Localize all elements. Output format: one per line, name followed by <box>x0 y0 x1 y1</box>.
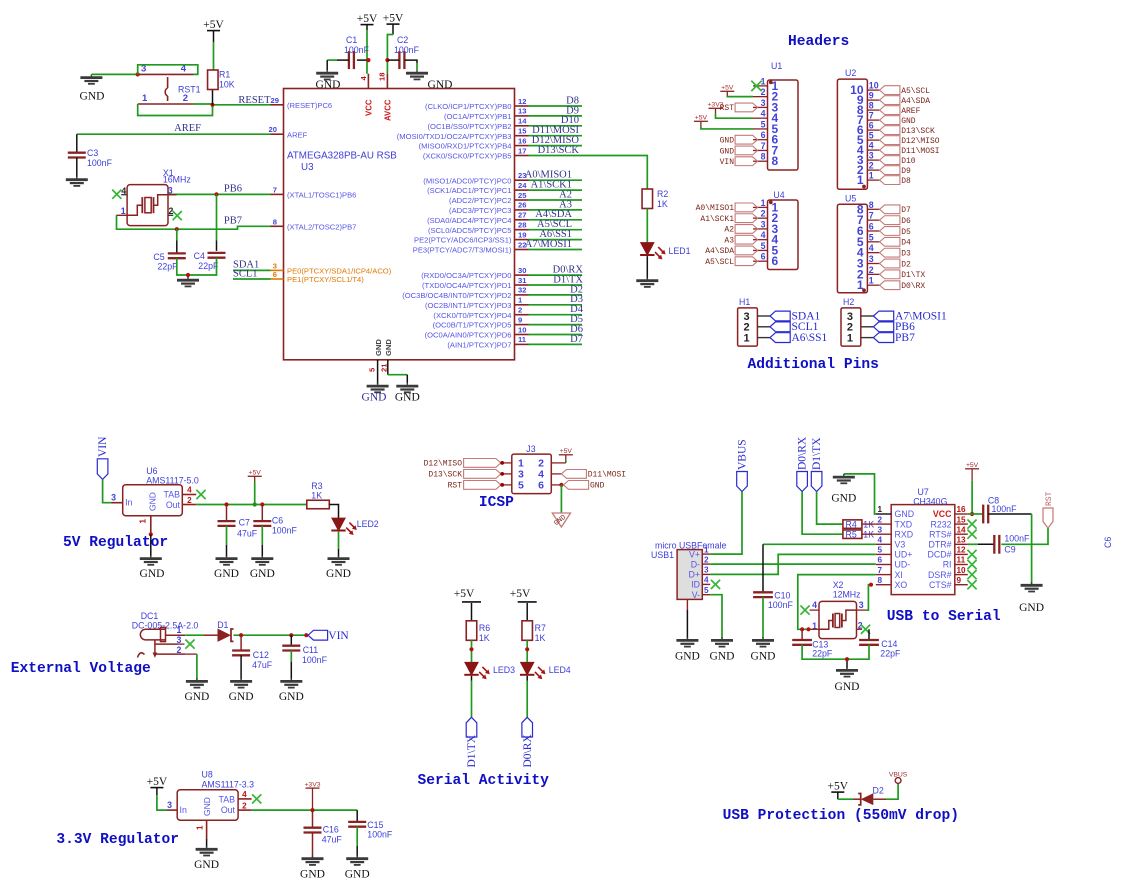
U3 pin 4 VCC <box>359 74 374 116</box>
wire +5V to R1 <box>213 42 214 105</box>
U6 pin 2 Out <box>182 496 196 505</box>
svg-text:LED3: LED3 <box>493 665 515 675</box>
svg-text:D7: D7 <box>570 334 583 345</box>
svg-text:(SDA0/ADC4/PTCY)PC4: (SDA0/ADC4/PTCY)PC4 <box>427 216 511 225</box>
label D6 <box>570 324 583 335</box>
svg-text:USB Protection (550mV drop): USB Protection (550mV drop) <box>723 808 959 824</box>
svg-text:D2: D2 <box>873 786 884 796</box>
svg-text:(OC0B/T1/PTCXY)PD5: (OC0B/T1/PTCXY)PD5 <box>433 321 512 330</box>
svg-text:100nF: 100nF <box>768 600 794 610</box>
wire D1 to VIN <box>234 634 309 636</box>
wire D1\TX to R4 <box>817 492 843 525</box>
U3 pin 31 (TXD0/OC4A/PTCXY)PD1 <box>422 276 528 290</box>
resistor R6 <box>466 621 490 643</box>
svg-text:5V Regulator: 5V Regulator <box>63 535 168 551</box>
wire U7 GND to ground <box>844 474 876 514</box>
svg-text:7: 7 <box>273 185 277 194</box>
junction PB7/C5 <box>175 227 179 231</box>
ground C7 <box>214 555 239 580</box>
capacitor C1 <box>344 35 370 69</box>
svg-text:UD+: UD+ <box>895 550 913 560</box>
power +5V (U8) <box>147 776 168 795</box>
svg-text:VIN: VIN <box>720 158 735 167</box>
U3 pin 20 AREF <box>269 125 308 139</box>
capacitor C4 <box>194 251 226 271</box>
connector U4 body <box>768 190 799 270</box>
svg-text:USB1: USB1 <box>651 550 674 560</box>
svg-text:6: 6 <box>538 480 544 492</box>
svg-text:D11\MOSI: D11\MOSI <box>901 147 939 156</box>
LED LED3 <box>464 662 515 679</box>
junction U7 VCC <box>970 512 974 516</box>
svg-text:30: 30 <box>518 266 526 275</box>
svg-text:GND: GND <box>720 147 735 156</box>
hier label D12\MISO (J3 pin 1) <box>424 459 505 469</box>
title 5V Regulator <box>63 535 168 551</box>
svg-text:D12\MISO: D12\MISO <box>901 137 940 146</box>
resistor R2 <box>642 189 668 209</box>
svg-text:D7: D7 <box>901 206 911 215</box>
power +5V (AVCC) <box>383 13 404 35</box>
svg-text:29: 29 <box>271 96 279 105</box>
svg-text:(OC2B/INT1/PTCXY)PD3: (OC2B/INT1/PTCXY)PD3 <box>425 301 512 310</box>
svg-text:R232: R232 <box>930 519 951 529</box>
wire D5 <box>529 324 583 326</box>
hier label A1\SCK1 (U4 pin 2) <box>700 214 757 224</box>
svg-text:7: 7 <box>878 566 883 575</box>
ground U3 pin21 <box>395 383 420 404</box>
U7 left pins <box>876 505 914 590</box>
svg-text:GND: GND <box>229 691 254 703</box>
svg-text:GND: GND <box>751 651 776 663</box>
svg-text:C16: C16 <box>323 825 339 835</box>
svg-text:RST: RST <box>448 482 463 491</box>
svg-text:(XTAL1/TOSC1)PB6: (XTAL1/TOSC1)PB6 <box>287 191 356 200</box>
svg-text:100nF: 100nF <box>367 830 393 840</box>
regulator U6 body <box>123 466 199 516</box>
U3 pin 15 (MOSI0/TXD1/OC2A/PTCXY)PB3 <box>397 127 529 141</box>
label D4 <box>570 304 584 315</box>
power +5V (VCC) <box>357 13 378 30</box>
R5 to U7 RXD stub <box>862 533 876 535</box>
wire VBUS to USB1 V+ <box>710 492 742 555</box>
wire C15 to GND <box>356 827 358 857</box>
svg-text:PB6: PB6 <box>224 183 242 194</box>
wire +5V to D2 <box>838 798 861 800</box>
U3 pin 29 (RESET)PC6 <box>271 96 333 110</box>
U2 pin numbers <box>850 81 879 188</box>
svg-text:U7: U7 <box>918 487 929 497</box>
ground C3 <box>66 177 88 186</box>
U3 pin 10 (OC0A/AIN0/PTCXY)PD6 <box>425 325 529 339</box>
svg-text:D6: D6 <box>901 217 911 226</box>
svg-text:100nF: 100nF <box>272 526 298 536</box>
svg-text:D3: D3 <box>901 249 911 258</box>
svg-text:D0\RX: D0\RX <box>522 734 534 768</box>
svg-text:15: 15 <box>957 515 967 524</box>
svg-text:C15: C15 <box>367 820 383 830</box>
junction VIN <box>304 633 308 637</box>
power +5V (R6) <box>454 588 481 602</box>
svg-text:(SCK1/ADC1/PTCY)PC1: (SCK1/ADC1/PTCY)PC1 <box>427 186 511 195</box>
svg-text:8: 8 <box>878 576 883 585</box>
global label VBUS (vertical) <box>737 439 749 491</box>
ground U3 pin5 <box>362 383 389 404</box>
svg-text:+3V3: +3V3 <box>304 781 320 788</box>
svg-text:6: 6 <box>878 556 883 565</box>
junction C11 <box>289 633 293 637</box>
svg-text:GND: GND <box>395 392 420 404</box>
U4 pin numbers <box>753 198 779 268</box>
svg-text:22pF: 22pF <box>158 262 179 272</box>
svg-text:AMS1117-5.0: AMS1117-5.0 <box>146 475 199 485</box>
label A2 <box>559 189 572 200</box>
svg-text:+5V: +5V <box>721 85 734 92</box>
svg-text:100nF: 100nF <box>344 45 370 55</box>
svg-text:47uF: 47uF <box>322 835 343 845</box>
svg-text:GND: GND <box>895 509 915 519</box>
svg-text:C7: C7 <box>239 518 250 528</box>
ground C4 C5 <box>177 277 199 286</box>
hier label D9 (U2 pin 2) <box>880 166 911 176</box>
wire A6\SS1 <box>529 239 583 241</box>
svg-text:R2: R2 <box>657 189 668 199</box>
ground DC1 <box>184 678 209 703</box>
wire RESET <box>213 104 271 106</box>
global label D0\RX (vertical) <box>522 717 534 767</box>
wire VIN to U6 In <box>103 479 112 502</box>
U3 pin 28 (SCL0/ADC5/PTCY)PC5 <box>428 221 529 235</box>
hier label D11\MOSI (U2 pin 4) <box>880 146 940 156</box>
label A1\SCK1 <box>531 180 572 191</box>
svg-text:+5V: +5V <box>828 781 849 793</box>
regulator U8 body <box>177 770 254 821</box>
hier label D8 (U2 pin 1) <box>880 176 911 186</box>
junction C7 <box>224 502 228 506</box>
hier label D2 (U5 pin 3) <box>880 259 911 269</box>
svg-text:4: 4 <box>869 141 874 151</box>
ground J3 (triangle) <box>552 513 570 528</box>
U3 pin 7 PB6 <box>271 185 357 199</box>
svg-text:4: 4 <box>812 600 817 610</box>
wire C2 to GND <box>387 60 417 70</box>
hier label A2 (U4 pin 3) <box>724 225 757 235</box>
svg-text:8: 8 <box>761 152 766 162</box>
U3 pin 11 (AIN1/PTCXY)PD7 <box>447 335 528 349</box>
capacitor C8 <box>983 496 1017 524</box>
junction X2 GND <box>845 657 849 661</box>
connector U5 body <box>837 194 867 293</box>
svg-text:UD-: UD- <box>895 560 911 570</box>
power +5V (D2) <box>828 781 849 800</box>
wire D+ to UD+ <box>710 554 876 574</box>
U7 right pins <box>928 505 968 590</box>
hier label D4 (U5 pin 5) <box>880 237 911 247</box>
global label SCL1 (H1 pin 2) <box>770 321 819 333</box>
hier label RST (J3 pin 5) <box>448 481 505 491</box>
svg-text:100nF: 100nF <box>1004 534 1030 544</box>
svg-text:DCD#: DCD# <box>928 550 952 560</box>
svg-text:RTS#: RTS# <box>929 529 951 539</box>
wire XI to X2 pin1 <box>798 575 876 630</box>
hier label D7 (U5 pin 8) <box>880 205 911 215</box>
svg-text:GND: GND <box>300 869 325 881</box>
U3 pin 21 GND <box>380 339 393 375</box>
wire D7 <box>529 343 583 345</box>
connector USB1 body <box>651 540 726 599</box>
svg-text:2: 2 <box>187 496 192 505</box>
svg-text:13: 13 <box>957 536 967 545</box>
wire C3 to GND <box>76 158 78 178</box>
capacitor C3 <box>68 134 113 168</box>
svg-text:D10: D10 <box>901 157 916 166</box>
svg-text:D13\SCK: D13\SCK <box>538 145 580 156</box>
svg-text:D4: D4 <box>901 239 911 248</box>
wire DTR# to C9 <box>968 543 995 545</box>
wire U1 pin4 <box>716 114 754 119</box>
svg-text:2: 2 <box>177 645 182 655</box>
mcu U3 body <box>284 89 515 360</box>
svg-text:C11: C11 <box>303 645 319 655</box>
hier label D10 (U2 pin 3) <box>880 156 916 166</box>
svg-text:1K: 1K <box>479 633 490 643</box>
svg-text:A7\MOSI1: A7\MOSI1 <box>525 239 572 250</box>
svg-text:+5V: +5V <box>560 448 573 455</box>
U3 pin 2 (XCK0/T0/PTCXY)PD4 <box>433 306 528 320</box>
svg-text:C9: C9 <box>1004 545 1015 555</box>
X1 pin2 no-connect <box>168 211 182 220</box>
U8 pin 3 <box>167 800 177 810</box>
U3 pin 26 (ADC3/PTCY)PC3 <box>449 201 528 215</box>
svg-text:20: 20 <box>269 125 277 134</box>
wire +5V to U8 In <box>157 795 167 810</box>
svg-text:6: 6 <box>761 130 766 140</box>
capacitor C5 <box>153 229 185 271</box>
X2 pin numbers <box>812 600 864 631</box>
wire A1\SCK1 <box>529 189 583 191</box>
svg-text:(OC1B/SS0/PTCXY)PB2: (OC1B/SS0/PTCXY)PB2 <box>428 122 512 131</box>
svg-text:VCC: VCC <box>365 99 374 116</box>
svg-text:GND: GND <box>384 339 393 356</box>
wire V3 to C10 <box>763 544 876 592</box>
wire C8 to GND rail <box>988 514 1031 583</box>
svg-text:22pF: 22pF <box>812 649 833 659</box>
junction AVCC/C2 <box>385 58 389 62</box>
svg-text:C6: C6 <box>272 516 283 526</box>
ground C15 <box>345 856 370 881</box>
svg-text:3: 3 <box>704 566 709 575</box>
wire A5\SCL <box>529 229 583 231</box>
svg-text:1: 1 <box>518 296 523 305</box>
svg-text:D5: D5 <box>901 228 911 237</box>
wire DC1 pin2 to GND <box>196 654 198 679</box>
svg-text:18: 18 <box>378 73 387 81</box>
svg-text:+5V: +5V <box>510 588 531 600</box>
wire switch pins 3-4 loop <box>138 65 198 75</box>
svg-text:H2: H2 <box>843 297 854 307</box>
global label A7\MOSI1 (H2 pin 3) <box>873 310 947 322</box>
svg-text:GND: GND <box>428 79 453 91</box>
svg-text:2: 2 <box>242 802 247 811</box>
U7 no-connect pins right <box>967 520 976 590</box>
diode D2 <box>858 786 884 806</box>
J3 pin numbers <box>502 458 544 492</box>
svg-text:GND: GND <box>80 91 105 103</box>
title ICSP <box>479 495 514 511</box>
hier label D0\RX (U5 pin 1) <box>880 281 926 291</box>
svg-text:24: 24 <box>518 181 527 190</box>
svg-text:3: 3 <box>167 800 172 810</box>
power +5V (U7 VCC) <box>965 462 979 514</box>
svg-text:ATMEGA328PB-AU RSB: ATMEGA328PB-AU RSB <box>287 151 397 162</box>
svg-text:LED4: LED4 <box>549 665 571 675</box>
junction PB6/C4 <box>214 192 218 196</box>
wire C1 to GND <box>327 60 349 70</box>
svg-text:21: 21 <box>380 363 389 372</box>
svg-text:7: 7 <box>869 211 874 221</box>
wire LED4 to label <box>526 676 528 717</box>
svg-text:2: 2 <box>761 209 766 219</box>
svg-text:GND: GND <box>374 339 383 356</box>
svg-text:(ADC2/PTCY)PC2: (ADC2/PTCY)PC2 <box>449 196 511 205</box>
power +5V (U1 pin5) <box>694 115 708 127</box>
U5 pin numbers <box>857 200 880 292</box>
svg-text:8: 8 <box>273 217 277 226</box>
svg-text:D1: D1 <box>217 620 228 630</box>
svg-text:5: 5 <box>518 480 524 492</box>
svg-text:V-: V- <box>692 590 700 600</box>
svg-text:12MHz: 12MHz <box>833 590 861 600</box>
svg-text:6: 6 <box>869 121 874 131</box>
svg-text:VCC: VCC <box>933 509 952 519</box>
svg-text:+5V: +5V <box>357 13 378 25</box>
svg-text:XO: XO <box>895 580 908 590</box>
svg-text:D8: D8 <box>901 177 911 186</box>
svg-text:TAB: TAB <box>219 795 236 805</box>
junction C16 <box>310 808 314 812</box>
wire pin5 to ground <box>377 375 379 384</box>
U6 pin 3 <box>111 493 123 503</box>
svg-text:25: 25 <box>518 191 527 200</box>
svg-text:VIN: VIN <box>97 436 109 457</box>
svg-text:AMS1117-3.3: AMS1117-3.3 <box>202 779 255 789</box>
svg-text:16: 16 <box>957 505 967 514</box>
wire C16 to GND <box>312 833 314 857</box>
svg-text:C12: C12 <box>253 650 269 660</box>
svg-text:D9: D9 <box>901 167 911 176</box>
svg-text:4: 4 <box>878 536 883 545</box>
H2 pin numbers <box>847 311 874 345</box>
svg-text:+5V: +5V <box>383 13 404 25</box>
wire D6 <box>529 334 583 336</box>
label A3 <box>559 199 572 210</box>
svg-text:VBUS: VBUS <box>889 772 908 779</box>
U3 pin 8 PB7 <box>271 217 357 231</box>
X1 pin4 no-connect <box>112 190 127 199</box>
svg-text:15: 15 <box>518 127 527 136</box>
svg-text:In: In <box>125 498 132 508</box>
U3 pin 22 PE3(PTCY/ADC7/T3/MOSI1) <box>413 240 529 254</box>
svg-text:R1: R1 <box>219 70 230 80</box>
svg-text:GND: GND <box>316 79 341 91</box>
hier label GND (J3 pin6) <box>564 481 605 491</box>
label RESET <box>238 95 271 106</box>
svg-text:RXD: RXD <box>895 529 914 539</box>
svg-text:3: 3 <box>869 254 874 264</box>
svg-text:4: 4 <box>242 790 247 799</box>
X1 pin numbers <box>121 185 174 216</box>
capacitor C15 <box>348 810 393 839</box>
svg-text:2: 2 <box>761 87 766 97</box>
svg-text:GND: GND <box>362 392 387 404</box>
svg-text:C1: C1 <box>346 35 357 45</box>
svg-text:3: 3 <box>111 493 116 503</box>
label D2 <box>570 284 583 295</box>
capacitor C14 <box>859 629 901 658</box>
junction LED4 <box>525 647 529 651</box>
svg-text:TAB: TAB <box>164 490 181 500</box>
svg-text:10: 10 <box>518 325 526 334</box>
svg-text:Headers: Headers <box>788 34 849 50</box>
svg-text:31: 31 <box>518 276 527 285</box>
svg-text:A2: A2 <box>724 226 734 235</box>
U3 pin 25 (ADC2/PTCY)PC2 <box>449 191 528 205</box>
svg-text:R4: R4 <box>846 520 857 530</box>
label D9 <box>566 105 579 116</box>
wire A0\MISO1 <box>529 179 583 181</box>
svg-text:(MISO0/RXD1/PTCXY)PB4: (MISO0/RXD1/PTCXY)PB4 <box>419 142 512 151</box>
wire C6 to GND <box>261 526 263 557</box>
svg-text:9: 9 <box>869 91 874 101</box>
power +5V (J3 pin2) <box>559 448 573 463</box>
wire VCC to C8 <box>968 513 983 515</box>
svg-text:5: 5 <box>869 131 874 141</box>
svg-text:(OC3B/OC4B/INT0/PTCXY)PD2: (OC3B/OC4B/INT0/PTCXY)PD2 <box>402 291 511 300</box>
svg-text:C5: C5 <box>153 252 164 262</box>
hier label A5\SCL (U2 pin 10) <box>880 86 931 96</box>
svg-text:U2: U2 <box>845 68 856 78</box>
svg-text:47uF: 47uF <box>237 529 258 539</box>
svg-text:9: 9 <box>518 315 522 324</box>
wire D2 <box>529 294 583 296</box>
svg-text:1K: 1K <box>535 633 546 643</box>
hier label D5 (U5 pin 6) <box>880 227 911 237</box>
svg-text:11: 11 <box>518 335 527 344</box>
svg-text:3: 3 <box>168 185 173 195</box>
hier label D13\SCK (U2 pin 6) <box>880 126 935 136</box>
hier label D6 (U5 pin 7) <box>880 216 911 226</box>
svg-text:AREF: AREF <box>174 123 201 134</box>
U1 pin1 no-connect <box>751 81 761 91</box>
svg-text:GND: GND <box>326 568 351 580</box>
svg-text:GND: GND <box>202 797 212 816</box>
svg-text:RI: RI <box>943 560 952 570</box>
U3 pin 18 AVCC <box>378 73 393 121</box>
capacitor C2 <box>394 35 420 69</box>
wire VCC <box>357 30 369 74</box>
U8 pin 2 Out <box>238 802 252 811</box>
svg-text:GND: GND <box>214 568 239 580</box>
svg-text:R5: R5 <box>846 530 857 540</box>
wire C7 to GND <box>226 526 228 557</box>
resistor R4 <box>843 520 874 530</box>
wire D12\MISO <box>529 145 583 147</box>
svg-text:TXD: TXD <box>895 519 913 529</box>
crystal X2 <box>819 580 861 639</box>
svg-text:D0\RX: D0\RX <box>797 436 809 470</box>
svg-text:X2: X2 <box>833 580 844 590</box>
wire C11 to GND <box>290 651 292 680</box>
